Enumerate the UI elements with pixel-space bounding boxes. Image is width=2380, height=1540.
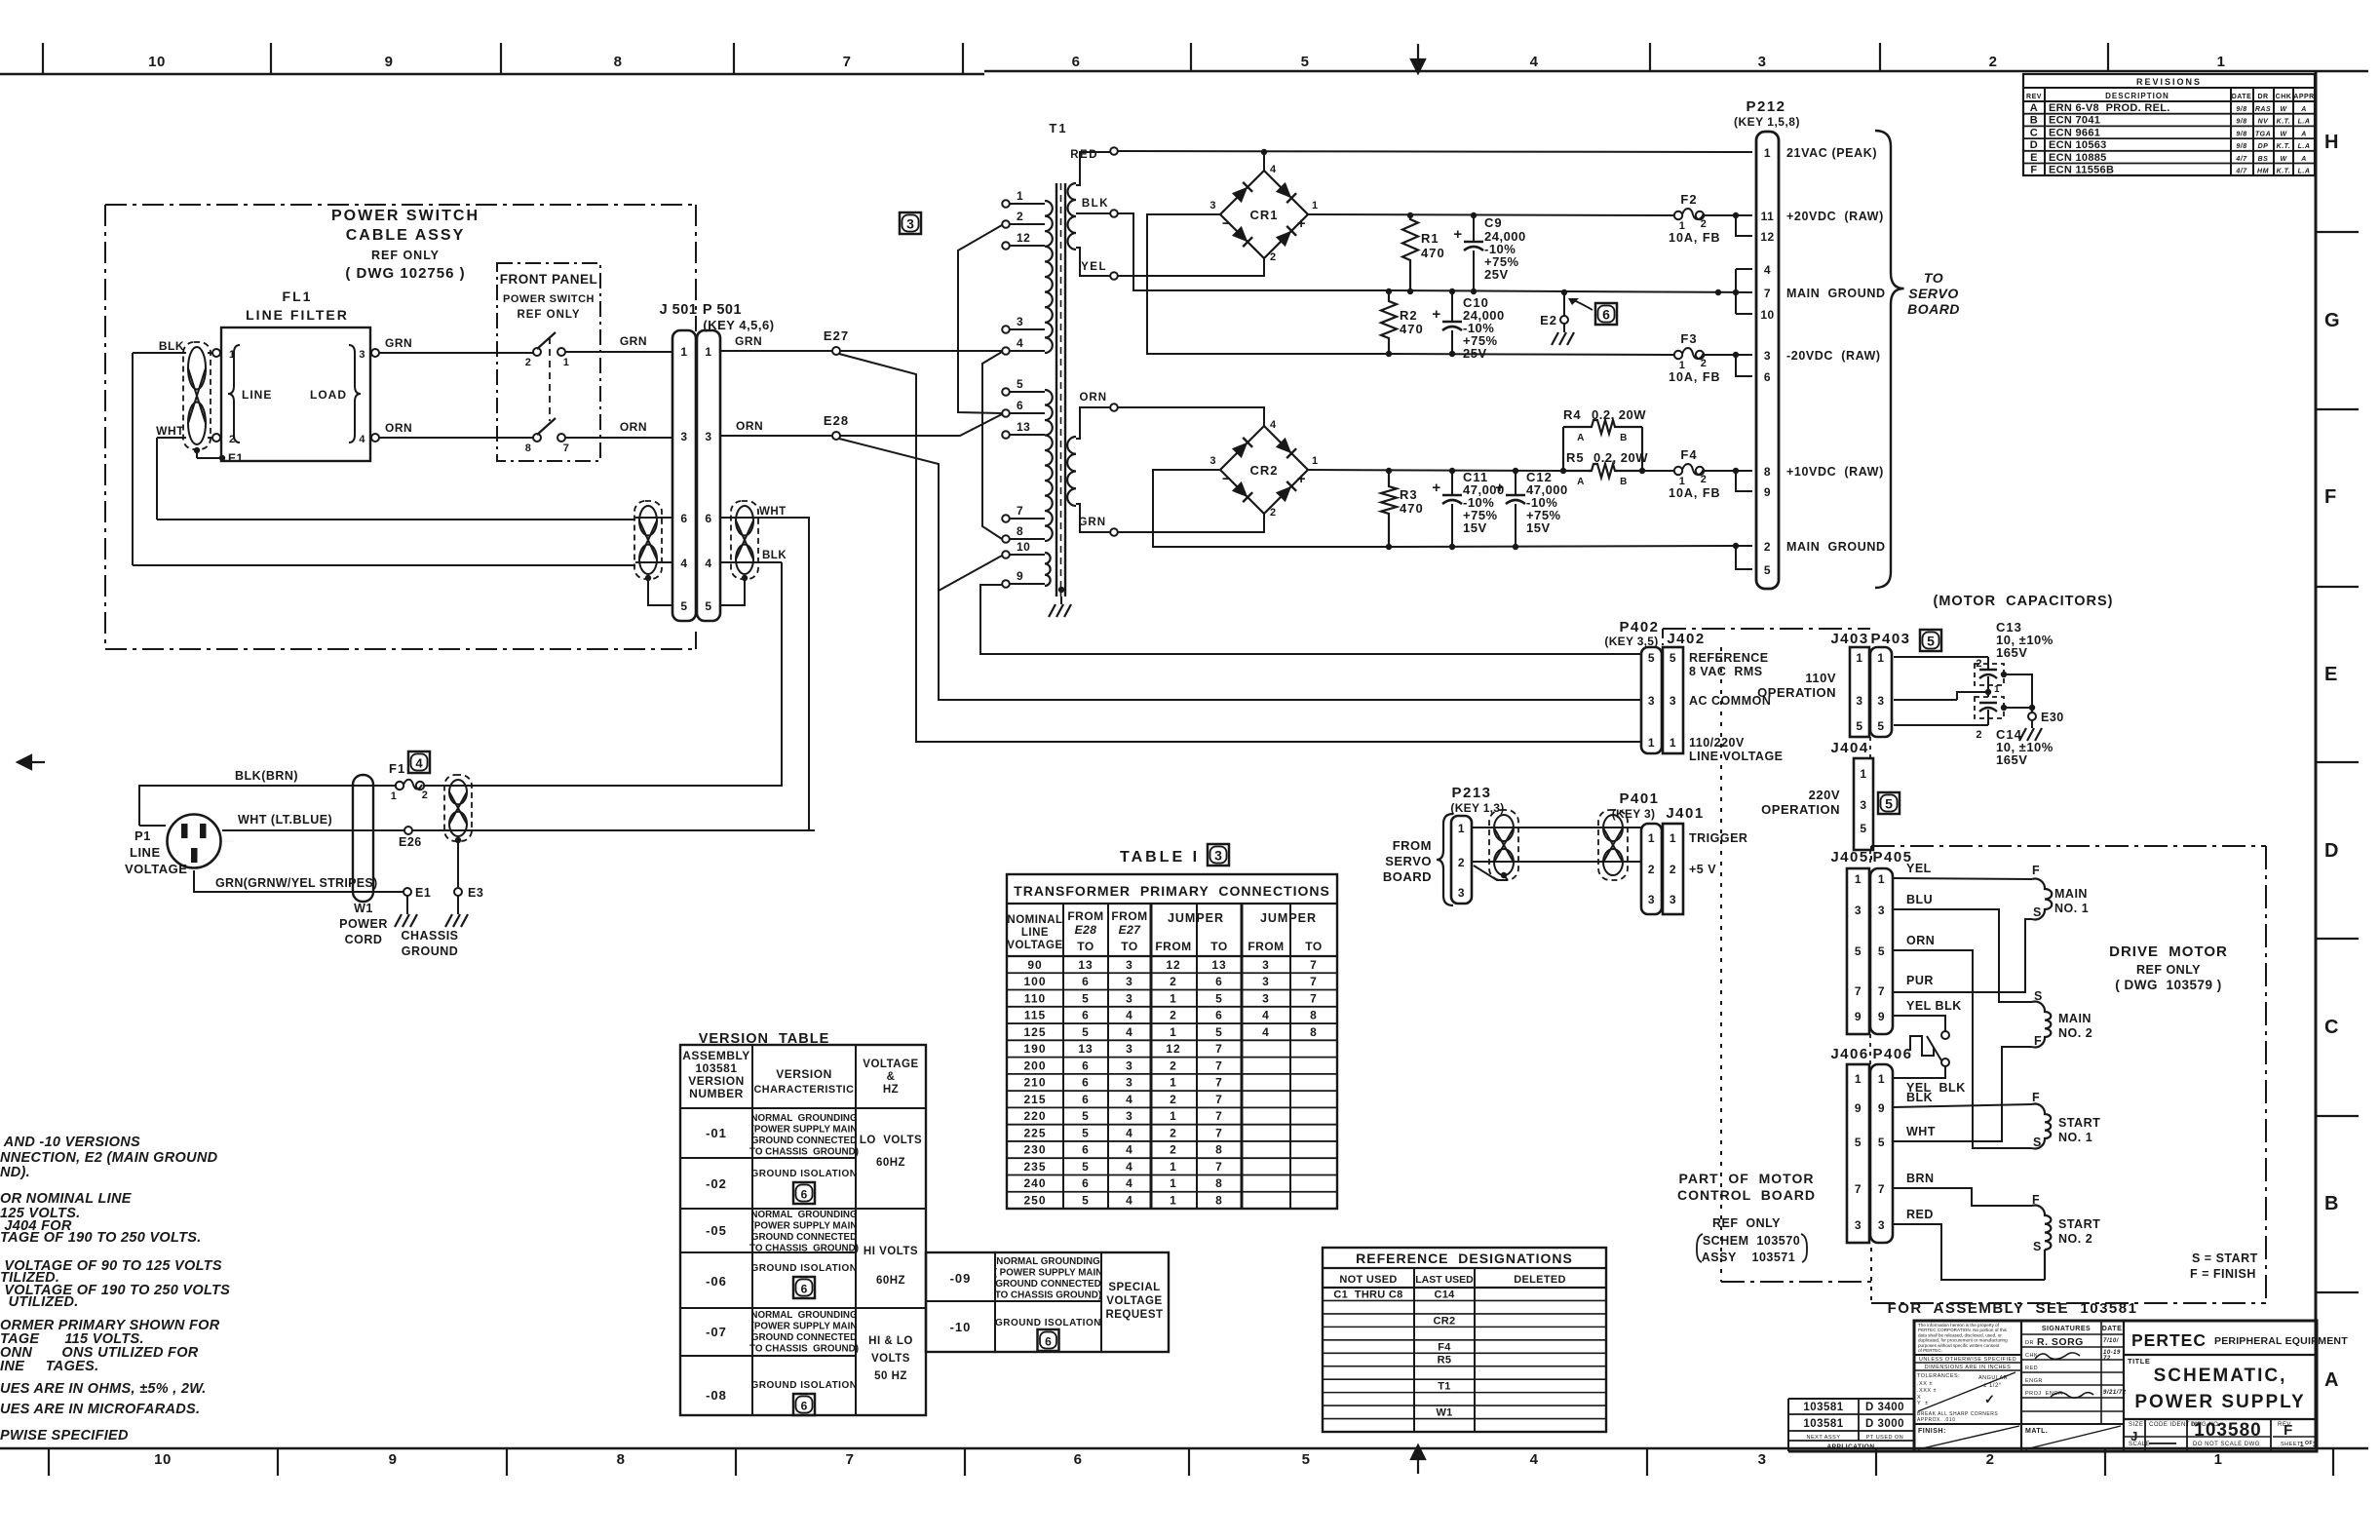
jumper tap4 to tap8 [982, 352, 1002, 539]
svg-text:HI & LO: HI & LO [868, 1335, 913, 1347]
svg-text:E27: E27 [1119, 923, 1142, 937]
svg-text:3: 3 [1126, 1109, 1133, 1123]
svg-text:ECN 9661: ECN 9661 [2049, 127, 2100, 138]
wire GRN switch to J501 [565, 351, 672, 353]
svg-text:2: 2 [1670, 863, 1676, 876]
svg-text:5: 5 [1648, 651, 1655, 665]
svg-text:1: 1 [2313, 1442, 2317, 1448]
wire ORN FL1 to switch [379, 437, 533, 439]
svg-text:P401: P401 [1619, 790, 1659, 807]
capacitor C11 [1449, 468, 1455, 474]
svg-text:UTILIZED.: UTILIZED. [0, 1294, 79, 1310]
svg-text:H: H [2324, 132, 2339, 153]
resistors R4 R5 parallel box [1560, 468, 1566, 474]
dash link J403-J404-J405 [1869, 737, 1871, 758]
svg-text:REFERENCE DESIGNATIONS: REFERENCE DESIGNATIONS [1356, 1251, 1573, 1266]
svg-text:NORMAL GROUNDING: NORMAL GROUNDING [750, 1310, 858, 1321]
resistor R3 [1386, 468, 1392, 474]
svg-text:7: 7 [563, 443, 570, 454]
wire GRN FL1 to switch [379, 352, 533, 354]
svg-text:5: 5 [1017, 377, 1023, 391]
svg-text:200: 200 [1023, 1059, 1046, 1072]
svg-text:1: 1 [1170, 1176, 1177, 1190]
svg-text:2: 2 [1701, 474, 1708, 485]
svg-text:A: A [2324, 1369, 2339, 1391]
svg-text:✓: ✓ [1984, 1392, 1995, 1406]
svg-text:3: 3 [1648, 893, 1655, 906]
svg-text:10A, FB: 10A, FB [1669, 370, 1721, 384]
T1 core ground [1058, 587, 1064, 593]
svg-text:2: 2 [1270, 507, 1277, 519]
svg-text:NNECTION, E2 (MAIN GROUND: NNECTION, E2 (MAIN GROUND [0, 1150, 218, 1166]
svg-text:REF ONLY: REF ONLY [2136, 963, 2201, 977]
svg-text:2: 2 [1701, 218, 1708, 230]
svg-text:LINE: LINE [242, 388, 272, 402]
svg-text:225: 225 [1023, 1126, 1046, 1139]
svg-text:5: 5 [1215, 991, 1223, 1005]
svg-text:1: 1 [1170, 1076, 1177, 1090]
wire BLK(BRN) [180, 819, 182, 824]
svg-text:3: 3 [1878, 1218, 1885, 1232]
svg-text:E2: E2 [1540, 313, 1557, 327]
svg-text:GRN: GRN [620, 334, 647, 348]
svg-text:APPLICATION: APPLICATION [1826, 1444, 1874, 1450]
svg-text:TO: TO [1924, 270, 1943, 286]
svg-text:E1: E1 [415, 886, 431, 900]
svg-text:MAIN GROUND: MAIN GROUND [1786, 540, 1886, 554]
svg-text:LOAD: LOAD [310, 388, 347, 402]
svg-text:ASSEMBLY: ASSEMBLY [682, 1049, 750, 1062]
svg-text:4: 4 [1126, 1160, 1133, 1174]
svg-text:PERIPHERAL EQUIPMENT: PERIPHERAL EQUIPMENT [2214, 1335, 2348, 1347]
svg-text:ASSY 103571: ASSY 103571 [1702, 1251, 1795, 1264]
svg-text:+: + [1297, 471, 1306, 487]
svg-text:4/7: 4/7 [2235, 169, 2247, 175]
svg-text:DR: DR [2257, 94, 2268, 100]
svg-text:P212: P212 [1746, 98, 1785, 115]
svg-text:E: E [2030, 152, 2038, 164]
svg-text:GROUND ISOLATION: GROUND ISOLATION [751, 1169, 858, 1179]
svg-text:T1: T1 [1438, 1381, 1450, 1393]
svg-text:S: S [2033, 905, 2042, 919]
svg-text:13: 13 [1017, 420, 1030, 434]
svg-text:8: 8 [614, 54, 623, 70]
svg-text:LINE: LINE [1021, 927, 1049, 939]
svg-text:APPROX. .010: APPROX. .010 [1917, 1417, 1955, 1423]
resistor R1 [1407, 212, 1413, 218]
svg-text:8: 8 [1310, 1009, 1318, 1022]
svg-text:3: 3 [1855, 904, 1862, 917]
svg-text:7: 7 [1017, 504, 1023, 518]
svg-text:HZ: HZ [883, 1084, 899, 1096]
svg-text:ERN 6-V8 PROD. REL.: ERN 6-V8 PROD. REL. [2049, 102, 2170, 114]
svg-text:215: 215 [1023, 1093, 1046, 1106]
svg-text:NORMAL GROUNDING: NORMAL GROUNDING [750, 1113, 858, 1124]
svg-text:5: 5 [1927, 634, 1935, 649]
motor winding MAIN NO.2 [2032, 1002, 2051, 1048]
svg-text:4: 4 [415, 756, 423, 771]
svg-text:GROUND CONNECTED: GROUND CONNECTED [751, 1232, 857, 1243]
switch mechanical link [549, 337, 551, 421]
svg-text:470: 470 [1400, 322, 1424, 336]
svg-text:DO NOT SCALE DWG: DO NOT SCALE DWG [2193, 1442, 2260, 1447]
svg-text:E1: E1 [228, 451, 244, 465]
wire from switch to P406-1 [1893, 1066, 1945, 1078]
svg-text:3: 3 [1209, 455, 1216, 467]
svg-text:3: 3 [1670, 694, 1676, 708]
svg-text:(POWER SUPPLY MAIN: (POWER SUPPLY MAIN [751, 1221, 858, 1232]
svg-text:DRIVE MOTOR: DRIVE MOTOR [2109, 943, 2228, 960]
svg-text:1: 1 [1170, 1194, 1177, 1208]
svg-text:S: S [2033, 1240, 2042, 1253]
svg-text:PUR: PUR [1906, 974, 1934, 987]
svg-text:3: 3 [906, 216, 914, 232]
svg-text:4: 4 [1764, 263, 1771, 277]
note flag 4 [408, 751, 430, 773]
svg-text:P402: P402 [1619, 619, 1659, 635]
front panel power switch box [497, 263, 600, 461]
wire BLK to FL1 pin1 [133, 352, 186, 354]
note flag 3 [900, 212, 921, 234]
svg-text:TABLE I: TABLE I [1120, 849, 1200, 866]
capacitor C10 [1449, 289, 1455, 294]
T1 core [1056, 183, 1057, 597]
fuse F2 [1674, 212, 1682, 219]
svg-text:CORD: CORD [345, 933, 383, 946]
svg-text:7: 7 [1310, 958, 1318, 972]
capacitor C9 [1471, 212, 1477, 218]
jumper tap2 to tap6 [958, 225, 1002, 413]
svg-text:2: 2 [1017, 210, 1023, 223]
svg-text:5: 5 [1878, 1136, 1885, 1149]
svg-text:10: 10 [148, 54, 166, 70]
svg-text:OF: OF [2305, 1441, 2313, 1446]
svg-text:9: 9 [1855, 1101, 1862, 1115]
svg-text:SHEET: SHEET [2281, 1442, 2301, 1447]
svg-text:7: 7 [1310, 991, 1318, 1005]
svg-text:7: 7 [1215, 1042, 1223, 1056]
svg-text:LINE FILTER: LINE FILTER [246, 307, 349, 323]
svg-text:3: 3 [1855, 1218, 1862, 1232]
svg-text:W: W [2280, 106, 2287, 113]
svg-text:6: 6 [705, 512, 711, 525]
svg-text:5: 5 [1082, 1126, 1090, 1139]
svg-text:−: − [1222, 215, 1231, 232]
svg-text:8: 8 [525, 443, 532, 454]
svg-text:8: 8 [1215, 1176, 1223, 1190]
svg-text:D: D [2030, 139, 2038, 151]
bridge rectifier CR1 [1220, 171, 1308, 258]
P212 pin jogs [1733, 212, 1739, 218]
svg-text:HI VOLTS: HI VOLTS [864, 1246, 918, 1257]
bottom ruler arrow [1411, 1445, 1425, 1474]
start switch actuator zigzag [1910, 1036, 1934, 1056]
wire E27 branch to P402 line voltage [839, 354, 1641, 742]
svg-text:HM: HM [2257, 169, 2269, 175]
svg-text:W1: W1 [354, 902, 373, 915]
svg-text:YEL BLK: YEL BLK [1906, 999, 1962, 1013]
svg-text:(MOTOR CAPACITORS): (MOTOR CAPACITORS) [1934, 594, 2114, 609]
svg-text:VOLTAGE: VOLTAGE [863, 1059, 918, 1070]
svg-text:6: 6 [1215, 1009, 1223, 1022]
svg-text:25V: 25V [1463, 346, 1487, 361]
svg-text:5: 5 [1302, 1451, 1311, 1468]
revisions table [2023, 74, 2315, 175]
T1 secondary top (RED/BLK/YEL) [1068, 183, 1077, 250]
svg-text:2: 2 [1986, 1451, 1995, 1468]
cap bypass wire to E30 [2001, 672, 2007, 677]
top ruler arrow [1411, 44, 1425, 73]
svg-text:S = START: S = START [2192, 1251, 2258, 1265]
svg-text:BLK: BLK [159, 339, 184, 353]
svg-text:NO. 1: NO. 1 [2058, 1131, 2092, 1144]
svg-text:W: W [2280, 131, 2287, 137]
svg-text:7: 7 [1878, 1182, 1885, 1196]
svg-text:210: 210 [1023, 1076, 1046, 1090]
svg-text:DELETED: DELETED [1514, 1274, 1565, 1286]
svg-text:L.A: L.A [2298, 119, 2311, 126]
E26 terminal [404, 827, 412, 834]
svg-text:OPERATION: OPERATION [1761, 802, 1840, 817]
CR2 minus to lower ground rail [1153, 470, 1389, 547]
svg-text:PERTEC: PERTEC [2131, 1330, 2207, 1350]
svg-text:E27: E27 [824, 328, 849, 343]
svg-text:SCHEM 103570: SCHEM 103570 [1703, 1234, 1800, 1248]
svg-text:2: 2 [1458, 856, 1465, 869]
svg-text:F: F [2034, 1034, 2042, 1048]
svg-text:BLK: BLK [762, 550, 787, 561]
svg-text:3: 3 [1017, 315, 1023, 328]
svg-text:ORN: ORN [620, 420, 647, 434]
twisted pair at FL1 input [183, 342, 211, 449]
svg-text:RED: RED [1070, 149, 1098, 161]
svg-text:1: 1 [1855, 872, 1862, 886]
svg-text:ECN 10885: ECN 10885 [2049, 152, 2107, 164]
svg-text:VERSION: VERSION [776, 1067, 832, 1081]
svg-text:VOLTS: VOLTS [871, 1353, 910, 1365]
svg-text:-09: -09 [950, 1271, 972, 1286]
svg-text:NV: NV [2258, 119, 2270, 126]
svg-text:4/7: 4/7 [2235, 156, 2247, 163]
left border arrow [18, 755, 45, 769]
start switch contacts [1941, 1031, 1949, 1039]
svg-text:7: 7 [843, 54, 852, 70]
T1 primary winding C [1045, 553, 1051, 586]
svg-text:1: 1 [1878, 1072, 1885, 1086]
svg-text:BLK(BRN): BLK(BRN) [235, 769, 298, 783]
capacitor C12 [1513, 468, 1518, 474]
svg-text:1: 1 [2217, 54, 2226, 70]
svg-text:INE TAGES.: INE TAGES. [0, 1359, 98, 1374]
svg-text:UNLESS OTHERWISE SPECIFIED: UNLESS OTHERWISE SPECIFIED [1919, 1357, 2016, 1363]
svg-text:C1 THRU C8: C1 THRU C8 [1333, 1289, 1402, 1300]
svg-text:D 3400: D 3400 [1865, 1402, 1904, 1413]
W1 power cord oval [353, 775, 373, 902]
svg-text:1: 1 [1670, 831, 1676, 845]
plug P1 line voltage [168, 815, 221, 868]
svg-text:3: 3 [1126, 991, 1133, 1005]
svg-text:1: 1 [563, 357, 570, 368]
svg-text:190: 190 [1023, 1042, 1046, 1056]
svg-text:PART OF MOTOR: PART OF MOTOR [1679, 1171, 1815, 1186]
sheet bottom border ruler [0, 1447, 2368, 1450]
svg-text:6: 6 [680, 512, 687, 525]
svg-text:7: 7 [1764, 287, 1771, 300]
svg-text:( DWG 103579 ): ( DWG 103579 ) [2115, 978, 2222, 992]
svg-text:-05: -05 [706, 1223, 727, 1238]
svg-text:8: 8 [1215, 1143, 1223, 1157]
wire WHT down to line area [770, 518, 809, 830]
svg-text:7: 7 [1215, 1160, 1223, 1174]
svg-text:GRN: GRN [385, 336, 412, 350]
wire YEL to CR1 pin2 [1118, 258, 1264, 276]
svg-text:+10VDC (RAW): +10VDC (RAW) [1786, 465, 1884, 479]
svg-text:NOMINAL: NOMINAL [1007, 914, 1062, 926]
svg-text:CHARACTERISTIC: CHARACTERISTIC [754, 1084, 855, 1096]
svg-text:5: 5 [1856, 719, 1862, 733]
svg-text:J406: J406 [1830, 1046, 1868, 1062]
svg-text:2: 2 [1976, 729, 1982, 741]
svg-text:3: 3 [1126, 1059, 1133, 1072]
wire YEL P405-1 to MAIN1 F [1893, 878, 2032, 879]
svg-text:A: A [2300, 106, 2307, 113]
svg-text:FL1: FL1 [283, 289, 313, 304]
svg-text:R3: R3 [1400, 487, 1418, 502]
svg-text:4: 4 [359, 434, 365, 445]
svg-text:7/10/: 7/10/ [2103, 1338, 2120, 1344]
svg-text:NO. 2: NO. 2 [2058, 1232, 2092, 1246]
svg-text:R5: R5 [1566, 450, 1585, 465]
svg-text:( POWER SUPPLY MAIN: ( POWER SUPPLY MAIN [994, 1268, 1103, 1279]
svg-text:F: F [2032, 864, 2040, 877]
svg-text:7: 7 [1215, 1076, 1223, 1090]
svg-text:3: 3 [1648, 694, 1655, 708]
svg-text:5: 5 [1301, 54, 1310, 70]
svg-text:1: 1 [2300, 1442, 2304, 1448]
svg-text:NEXT ASSY: NEXT ASSY [1807, 1435, 1841, 1441]
svg-text:1: 1 [1017, 189, 1023, 203]
svg-text:J403: J403 [1830, 631, 1868, 647]
svg-text:W: W [2280, 156, 2287, 163]
svg-text:R1: R1 [1421, 231, 1440, 246]
svg-text:NOT USED: NOT USED [1339, 1274, 1397, 1286]
svg-text:T1: T1 [1049, 121, 1067, 135]
note flag 5 [1878, 792, 1900, 814]
svg-text:YEL: YEL [1081, 261, 1107, 273]
svg-text:BOARD: BOARD [1383, 869, 1432, 884]
svg-text:110V: 110V [1805, 671, 1836, 685]
svg-text:2: 2 [1989, 54, 1998, 70]
svg-text:4: 4 [1126, 1009, 1133, 1022]
svg-text:SCALE: SCALE [2129, 1442, 2150, 1447]
bridge rectifier CR2 [1220, 426, 1308, 514]
svg-text:E28: E28 [1075, 923, 1097, 937]
motor control board dash-dot boundary top [1663, 628, 1870, 630]
svg-text:60HZ: 60HZ [876, 1275, 905, 1287]
svg-text:3: 3 [1458, 886, 1465, 900]
svg-text:1: 1 [680, 345, 687, 359]
svg-text:1: 1 [1170, 1025, 1177, 1039]
svg-text:3: 3 [1126, 1076, 1133, 1090]
svg-text:LINE: LINE [130, 845, 161, 860]
svg-text:ORN: ORN [1079, 392, 1107, 404]
svg-text:1: 1 [1312, 200, 1319, 212]
chassis ground twisted pair [444, 775, 472, 841]
svg-text:470: 470 [1421, 246, 1445, 260]
svg-text:1: 1 [705, 345, 711, 359]
svg-text:3: 3 [1877, 694, 1884, 708]
svg-text:6: 6 [1082, 1143, 1090, 1157]
svg-text:15V: 15V [1463, 520, 1487, 535]
svg-text:START: START [2058, 1116, 2100, 1130]
svg-text:4: 4 [1530, 54, 1539, 70]
svg-text:2: 2 [525, 357, 532, 368]
switch pole GRN [533, 348, 541, 356]
svg-text:B: B [2030, 115, 2038, 127]
svg-text:FINISH:: FINISH: [1918, 1428, 1946, 1435]
svg-text:3: 3 [1209, 200, 1216, 212]
wire E27 to tap 4 [840, 350, 1002, 352]
svg-text:0.2, 20W: 0.2, 20W [1593, 450, 1648, 465]
svg-text:W1: W1 [1436, 1407, 1452, 1419]
wire WHT to FL1 pin2 [157, 437, 186, 439]
svg-text:3: 3 [705, 430, 711, 443]
svg-text:6: 6 [1082, 1076, 1090, 1090]
svg-text:E26: E26 [399, 835, 422, 849]
svg-text:F: F [2324, 486, 2337, 508]
svg-text:3: 3 [1126, 975, 1133, 988]
svg-text:GROUND CONNECTED: GROUND CONNECTED [995, 1279, 1100, 1290]
svg-text:P213: P213 [1451, 785, 1491, 801]
svg-text:ORN: ORN [1906, 934, 1935, 947]
svg-text:13: 13 [1211, 958, 1226, 972]
svg-text:3: 3 [1126, 958, 1133, 972]
CR1 minus to -20V rail [1147, 214, 1389, 354]
dotted link between J405/P405 and J406/P406 [1869, 1034, 1871, 1064]
svg-text:CHK: CHK [2276, 94, 2292, 100]
svg-text:BLU: BLU [1906, 893, 1933, 906]
svg-text:4: 4 [1126, 1194, 1133, 1208]
svg-text:3: 3 [1262, 991, 1270, 1005]
E3 terminal [454, 888, 462, 896]
E2 main ground terminal [1561, 289, 1567, 295]
svg-text:FROM: FROM [1393, 838, 1432, 853]
svg-text:TO: TO [1210, 940, 1227, 953]
note box 6 with arrow at E2 [1595, 303, 1617, 325]
wire BLK long to J501-4 [133, 564, 635, 566]
svg-text:CABLE ASSY: CABLE ASSY [346, 227, 466, 244]
svg-text:START: START [2058, 1217, 2100, 1231]
svg-text:PWISE SPECIFIED: PWISE SPECIFIED [0, 1428, 129, 1444]
svg-text:5: 5 [1082, 1109, 1090, 1123]
reference designations table [1323, 1248, 1606, 1432]
svg-text:10A, FB: 10A, FB [1669, 486, 1721, 500]
svg-text:72: 72 [2103, 1356, 2111, 1362]
svg-text:9: 9 [1855, 1010, 1862, 1023]
svg-text:SCHEMATIC,: SCHEMATIC, [2154, 1366, 2287, 1386]
svg-text:&: & [887, 1071, 896, 1083]
svg-text:7: 7 [1215, 1109, 1223, 1123]
svg-text:TO: TO [1305, 940, 1322, 953]
svg-text:J401: J401 [1666, 805, 1704, 822]
svg-text:-02: -02 [706, 1176, 727, 1191]
wire MAIN2 F to WHT P406-5 [1893, 1047, 2032, 1141]
wires P213 to P401 [1472, 827, 1641, 828]
wire RED to 21VAC rail [1118, 151, 1752, 152]
svg-text:-20VDC (RAW): -20VDC (RAW) [1786, 349, 1881, 363]
svg-text:F: F [2032, 1193, 2040, 1207]
svg-text:2: 2 [1270, 251, 1277, 263]
